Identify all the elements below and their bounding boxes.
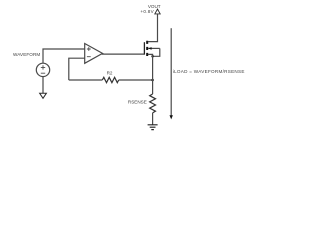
wire inverting input feedback down-leg [69, 58, 85, 80]
resistor RSENSE [150, 94, 156, 113]
wire voltage source to ground [42, 77, 44, 94]
wire RSENSE to ground [152, 113, 154, 125]
ground (earth style) under RSENSE [148, 125, 158, 130]
voltage source V1 (WAVEFORM) [36, 63, 49, 76]
svg-text:RSENSE: RSENSE [128, 99, 147, 104]
wire feedback bottom left segment [69, 79, 103, 81]
svg-text:R2: R2 [107, 71, 113, 76]
node sense junction dot [151, 79, 154, 82]
transistor M1 gate bar [143, 42, 145, 54]
transistor M1 drain wire [148, 14, 158, 41]
resistor R2 [102, 77, 118, 82]
svg-text:+0.8V: +0.8V [140, 9, 154, 14]
power symbol VOUT triangle [155, 9, 160, 14]
wire waveform source to op-amp noninverting input [43, 49, 85, 64]
wire sense node to RSENSE [152, 80, 154, 94]
transistor M1 body-to-source loop [153, 48, 160, 56]
node body-source junction dot [151, 55, 154, 58]
current arrow iLOAD [170, 28, 173, 119]
svg-text:WAVEFORM: WAVEFORM [13, 52, 40, 57]
ground (arrow style) under source [40, 93, 47, 98]
op-amp U1 [85, 44, 103, 64]
wire op-amp output to gate [102, 53, 145, 55]
transistor M1 body arrow [148, 47, 160, 50]
transistor M1 source wire down to sense node [148, 54, 153, 80]
wire feedback bottom right segment to sense node [119, 79, 153, 81]
transistor M1 channel segments [146, 41, 148, 56]
svg-text:iLOAD = WAVEFORM/RSENSE: iLOAD = WAVEFORM/RSENSE [173, 69, 245, 74]
